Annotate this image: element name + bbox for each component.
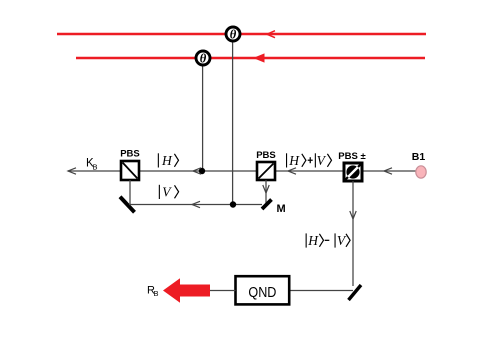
label R_B [147,284,159,298]
PBS (left) box [121,161,139,180]
svg-text:H: H [307,233,319,248]
wire: vertical from lower theta to H line [202,58,204,171]
arrow on red line 2 (solid red triangle) [253,53,265,62]
wire: H line (y=171) from K_B arrow to B1 [68,170,416,172]
arrow down to mirror M [263,185,269,193]
svg-text:PBS: PBS [256,150,276,161]
arrow on H line between PBS and PBS± [288,168,296,174]
QND box [236,276,290,304]
phase shifter theta (lower) [196,51,210,65]
arrow on top red line (left-pointing chevron) [267,31,275,38]
mirror (left, below PBS) [120,197,135,212]
node: junction dot on V line [230,201,236,207]
svg-text:H: H [161,153,173,168]
wire: top red beam line 1 [57,33,426,35]
thick red output arrow R_B [163,278,210,303]
svg-text:θ: θ [200,51,207,65]
svg-text:θ: θ [230,27,237,41]
svg-text:QND: QND [248,284,276,301]
wire: vertical from middle PBS down to mirror M [265,180,267,203]
svg-text:H: H [288,153,300,168]
wire: vertical from left PBS to left mirror [129,180,131,205]
svg-text:B: B [93,163,98,172]
wire: vertical from PBS± down [352,181,354,286]
PBS (middle) box [257,162,275,180]
label |H>-|V> [306,233,351,248]
wire: QND to red arrow [209,290,236,292]
arrow on V line [192,201,200,207]
label K_B [86,158,98,172]
wire: vertical from upper theta to V line [232,34,234,205]
arrow down on vertical [350,211,356,219]
svg-text:PBS: PBS [120,149,140,160]
svg-text:B1: B1 [412,151,426,163]
mirror M [262,200,272,210]
node: junction dot on H line [199,168,205,174]
phase shifter theta (upper) [226,27,240,41]
arrow on H line left of junction [193,168,201,174]
mirror (bottom right) [349,285,362,300]
wire: bottom horizontal from mirror to QND [289,290,353,292]
source B1 (pink ellipse) [416,166,426,178]
svg-text:B: B [154,289,159,298]
label |V> [159,185,179,200]
arrow K_B end [68,168,76,174]
PBS ± box (circle with diagonal inside) [344,163,362,181]
arrow on H line between PBS± and B1 [384,168,392,174]
label |H> [158,153,179,168]
wire: V line (y=204.5) between mirrors [129,204,262,206]
svg-text:M: M [277,203,286,215]
label |H>+|V> [286,153,332,168]
wire: top red beam line 2 [76,57,425,59]
svg-text:PBS ±: PBS ± [338,151,365,162]
